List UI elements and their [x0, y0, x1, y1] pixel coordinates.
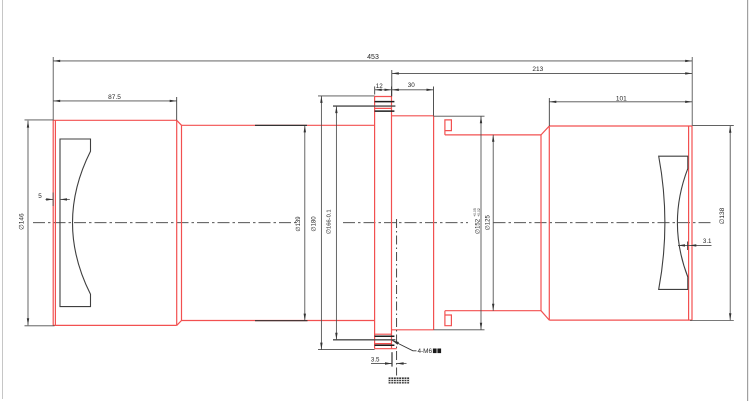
centerline axis right part [494, 222, 714, 224]
dia180 ext top [318, 95, 375, 97]
svg-text:∅125: ∅125 [484, 215, 491, 231]
leader arrow 4-M6 [392, 341, 399, 345]
S4 right face [540, 135, 542, 311]
sheet border left [2, 0, 4, 399]
svg-text:4-M6: 4-M6 [418, 348, 433, 355]
5 arrows outside [46, 198, 53, 200]
dia166 dim line [335, 106, 337, 340]
thread line bottom red [375, 343, 392, 345]
section S3 bottom edge [392, 329, 434, 331]
dia166 ext top [333, 105, 395, 107]
cylinder C5 bottom edge [549, 319, 692, 321]
svg-text:30: 30 [408, 82, 416, 89]
ext line 12/30 shared [391, 87, 393, 97]
flange F left face [374, 97, 376, 349]
ext line right 453/213/101 [691, 57, 693, 126]
dia146 arrows [27, 121, 29, 128]
dim line 3.1 [678, 244, 712, 246]
cylinder C5 right face outer [691, 126, 693, 320]
svg-text:∅166-0.1: ∅166-0.1 [326, 209, 333, 234]
3.5 arrows outside [385, 362, 392, 364]
svg-text:+0.02: +0.02 [477, 208, 481, 217]
flange F bottom face [375, 348, 397, 350]
dia146 ext top [25, 119, 54, 121]
cylinder C1 right face [176, 120, 178, 325]
30 arrows [392, 89, 399, 91]
dia152 arrows [480, 116, 482, 123]
dia139 dim line [304, 125, 306, 320]
cylinder C2 top edge [182, 124, 375, 126]
87.5 arrows [53, 100, 60, 102]
svg-text:213: 213 [532, 66, 543, 73]
svg-text:12: 12 [376, 83, 384, 90]
section S4 top edge [445, 134, 541, 136]
lens L2 biconcave [659, 156, 688, 289]
thread end lines black [375, 102, 395, 346]
section S3 top edge [392, 115, 434, 117]
dimension graphics [25, 57, 734, 367]
cylinder C2 bottom edge [182, 320, 375, 322]
centerline axis middle part [343, 222, 468, 224]
3.1 arrows [678, 244, 685, 246]
dia139 black overlay top [255, 124, 307, 126]
centre of gravity line [396, 219, 398, 376]
svg-text:∅146: ∅146 [18, 213, 25, 230]
svg-text:101: 101 [616, 96, 627, 103]
cylinder C1 top edge [53, 119, 177, 121]
cylinder C5 right face inner [688, 126, 690, 320]
step face C1/C2 [181, 125, 183, 320]
svg-text:∅180: ∅180 [311, 216, 318, 232]
dia180 arrows [320, 96, 322, 103]
dia138 ext top [693, 125, 734, 127]
svg-text:∅138: ∅138 [719, 207, 726, 224]
section S4 bottom edge [445, 310, 541, 312]
dia152 dim line [480, 116, 482, 330]
cylinder C5 left face [548, 126, 550, 320]
dia146 dim line [27, 121, 29, 326]
dim line 3.5 left [371, 362, 392, 364]
dia125 arrows [492, 135, 494, 142]
cylinder C1 bottom edge [53, 324, 177, 326]
dia139 arrows [304, 125, 306, 132]
dia139 black overlay bottom [255, 320, 308, 322]
svg-text:87.5: 87.5 [108, 94, 121, 101]
ext line 213 left [391, 70, 393, 96]
dim line 101 [549, 101, 692, 103]
chamfer S4 top [541, 126, 549, 135]
dim line 3.5 right [397, 362, 407, 364]
dim line 5 [46, 198, 54, 200]
ext line left 453/87.5 [52, 57, 54, 120]
ext line 30 right [433, 87, 435, 116]
flange F right face [391, 97, 393, 349]
ext line 12 left [374, 86, 376, 94]
groove notch top [445, 120, 452, 135]
dim line 87.5 [53, 100, 177, 102]
cylinder C1 left face outer [52, 120, 54, 325]
dia152 ext top [434, 115, 485, 117]
dia180 dim line [320, 96, 322, 350]
chamfer S4 bottom [541, 311, 549, 320]
dia180 ext bottom [318, 349, 375, 351]
arrowheads [27, 60, 732, 365]
lens L1 plano-concave [60, 139, 91, 307]
dim line 12 and 30 [375, 89, 434, 91]
dia125 dim line [492, 135, 494, 311]
step face S3/S4 [433, 116, 435, 330]
dia166 arrows [335, 106, 337, 113]
ext line 87.5 right [176, 97, 178, 120]
chamfer C1 bottom [177, 321, 182, 326]
svg-text:3.5: 3.5 [371, 357, 380, 364]
svg-text:453: 453 [367, 54, 379, 61]
dia166 ext bottom [333, 339, 395, 341]
svg-text:∅152: ∅152 [474, 218, 481, 234]
thread root bottom [375, 333, 392, 335]
dimension texts [18, 54, 726, 364]
4-M6 depth marks [433, 349, 441, 354]
svg-text:3.1: 3.1 [703, 238, 712, 245]
dim line 453 [53, 60, 692, 62]
dia138 arrows [729, 126, 731, 133]
cylinder C5 top edge [549, 125, 692, 127]
svg-text:∅139: ∅139 [295, 216, 302, 232]
ext line 3.5 [391, 352, 393, 366]
flange F top face [375, 96, 392, 98]
dia146 ext bottom [25, 325, 55, 327]
dia138 ext bottom [690, 320, 734, 322]
ext line 5 dark overlay [52, 193, 54, 207]
cylinder C1 left face inner [54, 120, 56, 325]
dia152 ext bottom [434, 329, 485, 331]
213 arrows [392, 72, 399, 74]
sheet border right [747, 0, 749, 401]
svg-text:5: 5 [38, 193, 42, 200]
dim line 213 [392, 72, 692, 74]
groove notch bottom [445, 311, 452, 326]
12 arrows inside [375, 89, 382, 91]
chamfer C1 top [177, 120, 182, 125]
101 arrows [549, 101, 556, 103]
leader 4-M6 [392, 341, 416, 351]
thread root top [375, 107, 392, 109]
dia138 dim line [729, 126, 731, 320]
ext line 101 left [548, 98, 550, 126]
453 arrows [53, 60, 60, 62]
CG label blobs (CJK) [389, 377, 410, 383]
centerline axis left part [33, 222, 297, 224]
ext line 3.1 [687, 242, 689, 251]
